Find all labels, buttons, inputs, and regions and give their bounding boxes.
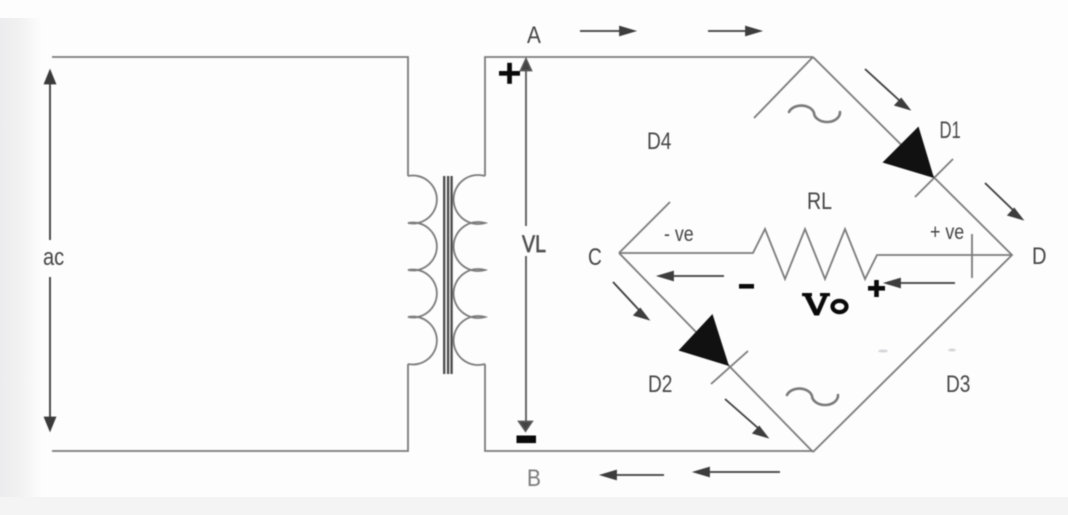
svg-text:D1: D1: [940, 117, 961, 144]
svg-text:D2: D2: [648, 370, 672, 398]
svg-text:D: D: [1032, 242, 1047, 269]
svg-text:ac: ac: [43, 243, 64, 270]
svg-text:A: A: [527, 20, 542, 48]
svg-text:+ ve: + ve: [930, 221, 964, 245]
svg-text:D3: D3: [946, 370, 970, 398]
svg-text:VL: VL: [522, 230, 546, 258]
svg-text:B: B: [527, 463, 541, 491]
svg-text:RL: RL: [807, 187, 832, 215]
svg-text:C: C: [588, 243, 602, 271]
svg-text:D4: D4: [647, 127, 671, 155]
svg-text:- ve: - ve: [664, 223, 694, 247]
